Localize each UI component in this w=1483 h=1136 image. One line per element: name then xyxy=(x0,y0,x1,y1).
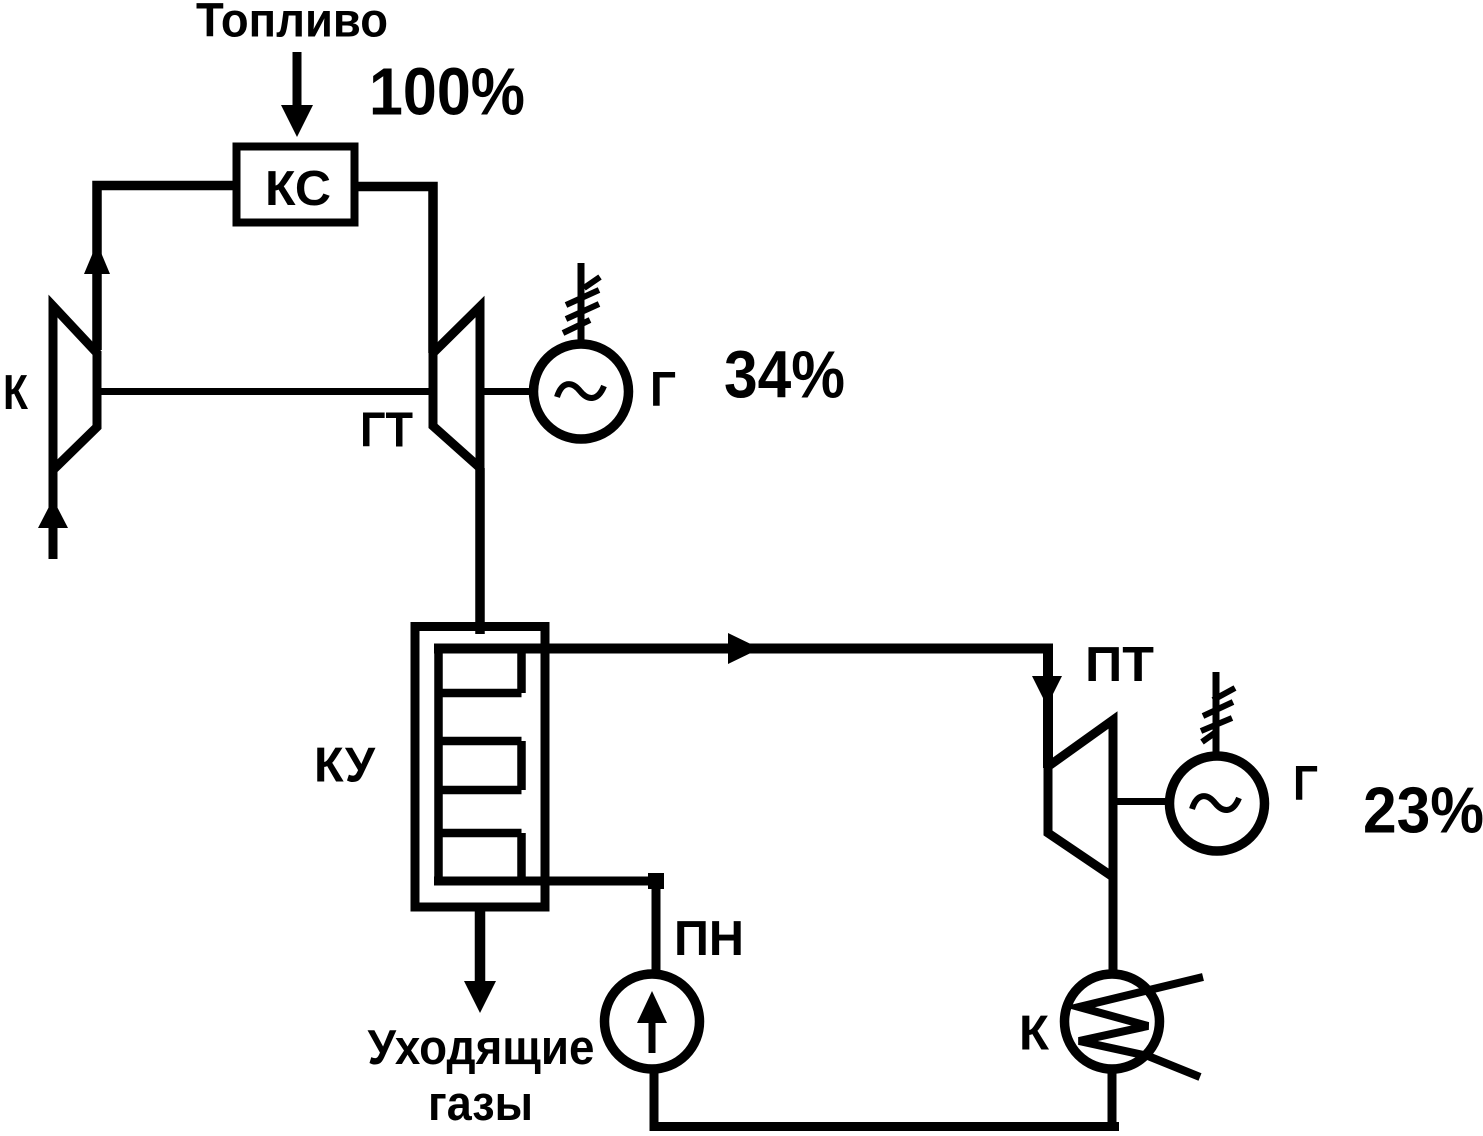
pump arrow shaft xyxy=(649,1020,656,1053)
compressor К xyxy=(53,306,97,470)
generator Г2 xyxy=(1170,756,1265,851)
condenser cooling zigzag xyxy=(1079,977,1203,1077)
arrowhead steam rightward xyxy=(728,633,760,664)
wire condenser to bottom xyxy=(1108,1069,1117,1131)
svg-text:К: К xyxy=(1019,1007,1049,1061)
КУ coil spine xyxy=(434,649,443,881)
wire fuel inlet xyxy=(293,52,302,108)
pump ПН xyxy=(605,974,700,1069)
exhaust wire down from КУ xyxy=(475,907,486,983)
wire turbine exhaust to HRSG xyxy=(475,468,485,634)
wire feedwater into КУ xyxy=(434,881,656,976)
ground hatches Г2 xyxy=(1201,688,1235,742)
ground hatches Г1 xyxy=(563,277,600,333)
wire air inlet xyxy=(49,470,58,559)
arrowhead fuel into KC xyxy=(281,105,313,137)
arrowhead steam down into ПТ xyxy=(1032,676,1062,706)
wire steam out of КУ to steam turbine xyxy=(434,649,1048,769)
svg-text:23%: 23% xyxy=(1363,774,1483,847)
gas turbine ГТ xyxy=(433,307,480,469)
wire ПТ to condenser xyxy=(1109,877,1118,976)
ground lead Г1 xyxy=(578,263,585,346)
КУ coil sections xyxy=(439,649,522,881)
junction dot xyxy=(648,873,664,889)
ground lead Г2 xyxy=(1213,672,1220,758)
svg-text:Уходящие: Уходящие xyxy=(368,1021,595,1075)
svg-text:ПТ: ПТ xyxy=(1085,638,1154,692)
svg-text:ГТ: ГТ xyxy=(360,404,413,458)
svg-text:34%: 34% xyxy=(724,338,845,413)
shaft compressor to gas turbine xyxy=(97,388,433,395)
condenser К xyxy=(1065,974,1160,1069)
steam turbine ПТ xyxy=(1048,720,1113,877)
svg-text:К: К xyxy=(3,366,28,420)
wire condensate bottom xyxy=(650,1122,1119,1131)
arrowhead air to КС xyxy=(84,243,110,274)
svg-text:Г: Г xyxy=(1293,757,1318,811)
wire КС to compressor outlet xyxy=(97,186,236,351)
svg-text:100%: 100% xyxy=(369,55,525,130)
svg-text:газы: газы xyxy=(428,1077,533,1131)
generator Г1 xyxy=(534,344,629,439)
svg-text:Топливо: Топливо xyxy=(196,0,388,48)
arrowhead exhaust gases xyxy=(464,981,496,1013)
svg-text:ПН: ПН xyxy=(674,912,744,966)
svg-text:КС: КС xyxy=(265,162,331,216)
shaft ПТ to generator xyxy=(1113,798,1172,805)
svg-text:КУ: КУ xyxy=(314,739,376,793)
wire КС to gas turbine xyxy=(355,187,433,354)
HRSG boiler КУ box xyxy=(415,627,545,908)
sine wave Г2 xyxy=(1192,796,1239,810)
shaft gas turbine to generator xyxy=(480,388,536,395)
svg-text:Г: Г xyxy=(650,363,676,417)
wire pump outlet xyxy=(650,1069,659,1131)
arrowhead air inlet xyxy=(38,499,68,528)
pump arrowhead xyxy=(637,991,667,1023)
combustion chamber КС xyxy=(237,147,355,223)
sine wave Г1 xyxy=(557,384,604,398)
